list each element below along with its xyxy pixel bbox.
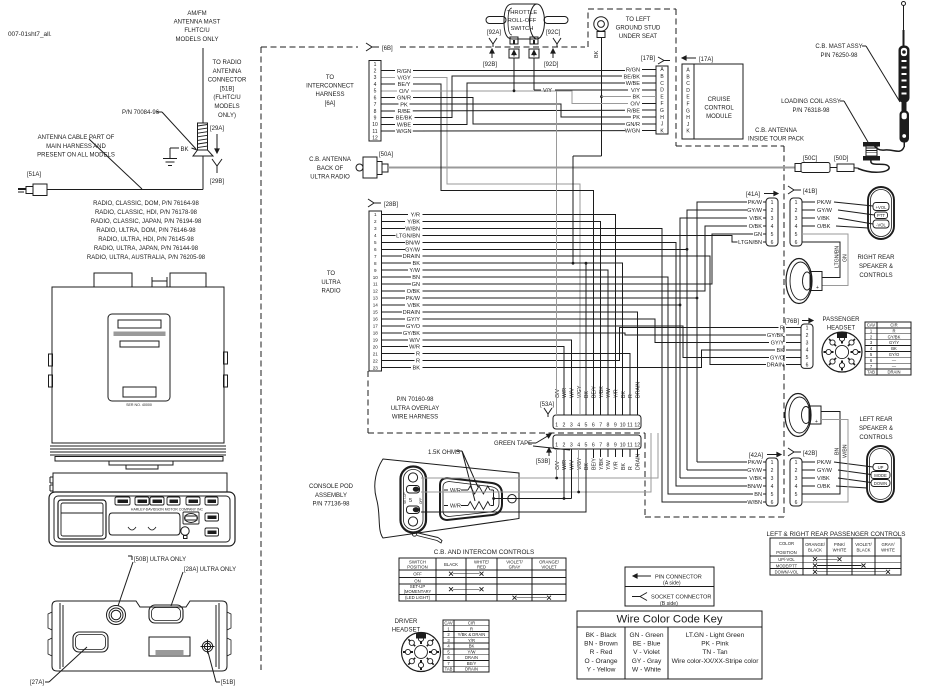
svg-text:11: 11 bbox=[627, 443, 632, 449]
CB and intercom controls table bbox=[399, 558, 566, 601]
svg-text:2: 2 bbox=[795, 468, 798, 474]
svg-text:CIR: CIR bbox=[890, 323, 897, 328]
svg-text:DRAIN: DRAIN bbox=[635, 454, 641, 470]
svg-text:W/R: W/R bbox=[450, 488, 461, 494]
wire stubs 53B pins 6-12 bbox=[592, 449, 594, 458]
svg-text:Y/BK: Y/BK bbox=[407, 219, 420, 225]
svg-text:4: 4 bbox=[374, 233, 377, 238]
svg-text:4: 4 bbox=[795, 484, 798, 490]
svg-text:[50D]: [50D] bbox=[834, 156, 849, 162]
svg-text:1: 1 bbox=[795, 200, 798, 206]
svg-text:R: R bbox=[892, 328, 895, 333]
svg-text:4: 4 bbox=[806, 348, 809, 354]
svg-text:1: 1 bbox=[555, 423, 558, 429]
svg-text:[42A]: [42A] bbox=[749, 453, 763, 459]
svg-text:GRAY/: GRAY/ bbox=[881, 542, 895, 547]
svg-text:ULTRA OVERLAY: ULTRA OVERLAY bbox=[391, 406, 439, 412]
svg-text:[42B]: [42B] bbox=[803, 451, 817, 457]
svg-text:GY/BK: GY/BK bbox=[767, 333, 784, 339]
console pod switch slots bbox=[407, 486, 420, 494]
svg-text:R/GN: R/GN bbox=[626, 68, 640, 74]
svg-text:1: 1 bbox=[806, 326, 809, 332]
svg-text:[53A]: [53A] bbox=[540, 402, 554, 408]
CB mast antenna bbox=[899, 2, 909, 148]
svg-text:RED: RED bbox=[477, 565, 486, 570]
wire GY/O 28B-17 to 76B-5 bbox=[423, 326, 769, 357]
svg-text:H: H bbox=[686, 115, 690, 121]
svg-text:8: 8 bbox=[607, 443, 610, 449]
wires 41B to right pod bbox=[834, 202, 873, 206]
svg-text:6: 6 bbox=[806, 363, 809, 369]
svg-text:8: 8 bbox=[607, 423, 610, 429]
svg-text:SOCKET CONNECTOR: SOCKET CONNECTOR bbox=[651, 595, 711, 601]
svg-text:ANTENNA: ANTENNA bbox=[213, 69, 242, 75]
resistor R2 1.5k bbox=[468, 502, 490, 510]
svg-text:DRAIN: DRAIN bbox=[635, 382, 641, 398]
label [92D] with arrow bbox=[552, 49, 554, 58]
svg-text:SWITCH: SWITCH bbox=[511, 26, 534, 32]
svg-text:W/R: W/R bbox=[409, 345, 420, 351]
wire GY/Y 28B-16 to 76B-3 bbox=[423, 319, 769, 343]
svg-text:MODELS ONLY: MODELS ONLY bbox=[176, 37, 219, 43]
svg-text:BK: BK bbox=[181, 147, 189, 153]
label [51B] with pointer bbox=[216, 681, 220, 683]
svg-text:GY/W: GY/W bbox=[405, 247, 421, 253]
wire O/V 6B-5 to 17B-F bbox=[411, 91, 628, 104]
svg-text:PK - Pink: PK - Pink bbox=[701, 641, 729, 648]
svg-text:BK: BK bbox=[413, 366, 421, 372]
svg-text:PK/W: PK/W bbox=[817, 200, 832, 206]
svg-text:GRAY: GRAY bbox=[509, 565, 521, 570]
svg-text:6: 6 bbox=[592, 443, 595, 449]
svg-text:4: 4 bbox=[795, 224, 798, 230]
svg-text:7: 7 bbox=[374, 254, 377, 259]
svg-text:[92A]: [92A] bbox=[487, 30, 501, 36]
antenna coil spring bbox=[198, 123, 208, 150]
passenger headset connector bbox=[822, 332, 862, 372]
svg-text:[76B]: [76B] bbox=[785, 319, 799, 325]
svg-text:CONTROLS: CONTROLS bbox=[859, 273, 892, 279]
wire R 28B-22 to 76B-1 bbox=[423, 328, 779, 361]
svg-text:5: 5 bbox=[771, 232, 774, 238]
svg-text:[50B] ULTRA ONLY: [50B] ULTRA ONLY bbox=[134, 557, 186, 563]
svg-text:GY/Y: GY/Y bbox=[771, 341, 785, 347]
svg-text:6: 6 bbox=[795, 500, 798, 506]
svg-text:ASSEMBLY: ASSEMBLY bbox=[315, 493, 347, 499]
svg-text:BN: BN bbox=[754, 492, 762, 498]
svg-text:8: 8 bbox=[374, 261, 377, 266]
svg-text:4: 4 bbox=[374, 82, 377, 88]
dashed boundary overlay harness bbox=[367, 371, 369, 433]
svg-text:[92C]: [92C] bbox=[546, 30, 561, 36]
svg-text:CAV: CAV bbox=[444, 620, 453, 625]
svg-text:TAB: TAB bbox=[418, 634, 424, 638]
svg-text:Y/BK: Y/BK bbox=[599, 386, 605, 398]
loading coil bbox=[858, 143, 904, 173]
label [50B] ultra only bbox=[128, 556, 132, 560]
svg-text:W/V: W/V bbox=[570, 460, 576, 470]
svg-text:12: 12 bbox=[373, 289, 379, 294]
svg-text:(B side): (B side) bbox=[660, 601, 678, 607]
svg-text:GN/R: GN/R bbox=[626, 122, 640, 128]
svg-text:GREEN TAPE: GREEN TAPE bbox=[494, 441, 532, 447]
svg-text:R/BE: R/BE bbox=[627, 108, 640, 114]
svg-text:5: 5 bbox=[795, 232, 798, 238]
svg-text:O/V: O/V bbox=[555, 461, 561, 470]
svg-text:9: 9 bbox=[614, 443, 617, 449]
svg-text:RADIO, ULTRA, HDI, P/N 76145-9: RADIO, ULTRA, HDI, P/N 76145-98 bbox=[98, 237, 194, 243]
svg-text:5: 5 bbox=[585, 423, 588, 429]
svg-text:7: 7 bbox=[599, 423, 602, 429]
svg-text:RIGHT REAR: RIGHT REAR bbox=[858, 255, 896, 261]
svg-text:[29A]: [29A] bbox=[210, 126, 224, 132]
svg-text:BK: BK bbox=[584, 463, 590, 470]
wire GY/BK 28B-18 to 76B-2 bbox=[423, 333, 766, 335]
wire W/R 28B-20 to 53A-2 bbox=[423, 347, 564, 415]
svg-text:GY/O: GY/O bbox=[770, 355, 785, 361]
wire W/BN 28B-3 to 42A-6 bbox=[423, 228, 747, 502]
svg-text:Y/R: Y/R bbox=[468, 638, 475, 643]
svg-text:D: D bbox=[686, 88, 690, 94]
svg-text:[92D]: [92D] bbox=[544, 62, 559, 68]
svg-text:[17A]: [17A] bbox=[699, 57, 713, 63]
svg-text:[92B]: [92B] bbox=[483, 62, 497, 68]
svg-text:Y/BK: Y/BK bbox=[599, 458, 605, 470]
svg-text:5: 5 bbox=[374, 89, 377, 95]
svg-text:BE/BK: BE/BK bbox=[624, 74, 641, 80]
svg-text:WHITE: WHITE bbox=[881, 548, 895, 553]
svg-text:22: 22 bbox=[373, 358, 379, 363]
pin symbol 92B terminal bbox=[509, 49, 519, 58]
svg-text:G: G bbox=[686, 108, 690, 114]
svg-text:WHITE: WHITE bbox=[833, 548, 847, 553]
svg-text:(LED LIGHT): (LED LIGHT) bbox=[405, 595, 431, 600]
svg-text:[29B]: [29B] bbox=[210, 179, 224, 185]
svg-text:TO: TO bbox=[326, 75, 335, 81]
svg-text:TN - Tan: TN - Tan bbox=[702, 649, 727, 656]
svg-text:Y/W: Y/W bbox=[409, 268, 420, 274]
svg-text:G: G bbox=[660, 108, 664, 114]
wire Y/R 28B-1 to 53A-9 bbox=[423, 214, 616, 415]
svg-text:BLACK: BLACK bbox=[808, 548, 822, 553]
svg-text:4: 4 bbox=[771, 484, 774, 490]
svg-text:DRAIN: DRAIN bbox=[465, 667, 478, 672]
svg-text:[51B]: [51B] bbox=[221, 680, 235, 686]
svg-text:O/V: O/V bbox=[630, 102, 640, 108]
wire PK 6B-7 to 17B-H bbox=[410, 104, 632, 117]
svg-text:P/N 70084-96: P/N 70084-96 bbox=[122, 110, 160, 116]
svg-text:P/N 77136-98: P/N 77136-98 bbox=[312, 502, 350, 508]
svg-text:3: 3 bbox=[806, 340, 809, 346]
ground symbol bbox=[163, 158, 177, 160]
wire V/GY 53B-4 to pod switch line bbox=[421, 433, 651, 492]
svg-text:WIRE HARNESS: WIRE HARNESS bbox=[392, 415, 438, 421]
svg-text:4: 4 bbox=[771, 224, 774, 230]
svg-text:PASSENGER: PASSENGER bbox=[823, 317, 861, 323]
svg-text:+VOL: +VOL bbox=[876, 205, 887, 210]
wire LTGN/BN 41B-6 to right speaker bbox=[802, 242, 840, 278]
wire W/BN 42B-6 to left speaker bbox=[802, 420, 848, 503]
console pod switch plate bbox=[401, 467, 427, 533]
svg-text:DRIVER: DRIVER bbox=[395, 619, 418, 625]
connector 53A bbox=[553, 415, 641, 429]
svg-text:BK: BK bbox=[621, 391, 627, 398]
svg-text:COLOR: COLOR bbox=[779, 541, 794, 546]
radio chassis top view bbox=[49, 273, 228, 469]
svg-text:W/BN: W/BN bbox=[843, 444, 849, 458]
throttle roll-off switch bbox=[486, 4, 568, 44]
svg-text:O/BK: O/BK bbox=[817, 484, 831, 490]
left rear speaker bbox=[785, 394, 811, 437]
svg-text:PK: PK bbox=[633, 115, 641, 121]
ground stud under seat bbox=[594, 17, 608, 31]
wire V/BK 28B-14 to 41A-3 and 42A-3 bbox=[423, 218, 747, 305]
svg-text:BE/Y: BE/Y bbox=[592, 458, 598, 470]
svg-text:BK - Black: BK - Black bbox=[586, 632, 617, 639]
svg-text:PK/W: PK/W bbox=[406, 296, 421, 302]
svg-text:CONTROL: CONTROL bbox=[704, 106, 734, 112]
antenna cable plug [51A] bbox=[33, 184, 47, 196]
svg-text:5: 5 bbox=[585, 443, 588, 449]
svg-text:P/N 70160-98: P/N 70160-98 bbox=[396, 397, 434, 403]
wire PK/W 28B-13 to 41A-1 and 42A-1 bbox=[423, 202, 747, 298]
svg-text:HARNESS: HARNESS bbox=[315, 92, 344, 98]
svg-text:GN - Green: GN - Green bbox=[629, 632, 663, 639]
wire coil to cable bend bbox=[202, 156, 204, 190]
svg-text:6: 6 bbox=[374, 247, 377, 252]
console pod outline bbox=[375, 459, 519, 538]
svg-text:BK: BK bbox=[413, 261, 421, 267]
svg-text:W/BN: W/BN bbox=[405, 226, 420, 232]
svg-text:V/BK: V/BK bbox=[749, 476, 762, 482]
svg-text:BK: BK bbox=[621, 463, 627, 470]
svg-text:V/BK: V/BK bbox=[817, 476, 830, 482]
svg-text:2: 2 bbox=[806, 333, 809, 339]
wire BK 28B-8 to 53A-5 and 53A-10 bbox=[423, 263, 623, 415]
svg-text:GY/W: GY/W bbox=[747, 468, 763, 474]
svg-text:GY/W: GY/W bbox=[747, 208, 763, 214]
svg-text:C: C bbox=[660, 81, 664, 87]
wire BN 42B-5 to left speaker bbox=[802, 412, 840, 495]
svg-text:BK: BK bbox=[633, 95, 641, 101]
connector 41B bbox=[790, 198, 802, 246]
svg-text:BE/Y: BE/Y bbox=[467, 661, 477, 666]
svg-text:6: 6 bbox=[795, 240, 798, 246]
wire LTGN/BN 28B-4 to 41A-6 bbox=[423, 235, 738, 242]
svg-text:TO LEFT: TO LEFT bbox=[626, 17, 651, 23]
svg-text:BLACK: BLACK bbox=[444, 562, 458, 567]
svg-text:5: 5 bbox=[795, 492, 798, 498]
svg-text:PIN 76250-98: PIN 76250-98 bbox=[820, 53, 858, 59]
svg-text:V/GY: V/GY bbox=[577, 457, 583, 470]
wire R/BE 6B-8 to 17B-G bbox=[413, 109, 625, 112]
svg-text:9: 9 bbox=[374, 116, 377, 122]
svg-text:AM/FM: AM/FM bbox=[187, 11, 206, 17]
svg-text:LTGN/BN: LTGN/BN bbox=[738, 240, 762, 246]
svg-text:V/BK: V/BK bbox=[407, 303, 420, 309]
svg-text:CONTROLS: CONTROLS bbox=[859, 435, 892, 441]
svg-text:VIOLET: VIOLET bbox=[541, 565, 557, 570]
svg-text:W/BE: W/BE bbox=[397, 122, 412, 128]
svg-text:GN: GN bbox=[412, 282, 420, 288]
svg-text:RADIO, CLASSIC, JAPAN, P/N 761: RADIO, CLASSIC, JAPAN, P/N 76194-98 bbox=[91, 219, 202, 225]
svg-text:[6A]: [6A] bbox=[325, 101, 336, 107]
svg-text:3: 3 bbox=[374, 226, 377, 231]
svg-text:BN - Brown: BN - Brown bbox=[584, 641, 618, 648]
svg-text:[53B]: [53B] bbox=[536, 459, 550, 465]
socket symbol and label [6B] bbox=[366, 43, 379, 51]
svg-text:23: 23 bbox=[373, 365, 379, 370]
svg-text:9: 9 bbox=[614, 423, 617, 429]
svg-text:BK: BK bbox=[584, 391, 590, 398]
svg-text:16: 16 bbox=[373, 317, 379, 322]
svg-text:5: 5 bbox=[771, 492, 774, 498]
svg-text:UNDER SEAT: UNDER SEAT bbox=[619, 34, 658, 40]
svg-text:1: 1 bbox=[555, 443, 558, 449]
passenger headset pin table bbox=[865, 322, 911, 375]
svg-text:BE/Y: BE/Y bbox=[398, 82, 411, 88]
svg-text:BE - Blue: BE - Blue bbox=[633, 641, 661, 648]
svg-text:C.B. ANTENNA: C.B. ANTENNA bbox=[755, 128, 797, 134]
svg-text:[6B]: [6B] bbox=[382, 46, 393, 52]
svg-text:6: 6 bbox=[592, 423, 595, 429]
svg-text:[27A]: [27A] bbox=[30, 680, 44, 686]
svg-text:GY/O: GY/O bbox=[889, 352, 900, 357]
svg-text:BK: BK bbox=[594, 50, 600, 58]
svg-text:W/R: W/R bbox=[450, 504, 461, 510]
svg-text:GN: GN bbox=[754, 232, 762, 238]
svg-text:TO: TO bbox=[327, 271, 336, 277]
svg-text:UP/-VOL: UP/-VOL bbox=[778, 557, 795, 562]
svg-text:BK: BK bbox=[777, 348, 785, 354]
svg-text:C.B. AND INTERCOM CONTROLS: C.B. AND INTERCOM CONTROLS bbox=[434, 549, 534, 556]
svg-text:BE/Y: BE/Y bbox=[592, 386, 598, 398]
svg-text:Y/W: Y/W bbox=[606, 388, 612, 398]
svg-text:12: 12 bbox=[372, 136, 378, 142]
socket symbol [29B] bbox=[212, 159, 222, 173]
svg-text:1: 1 bbox=[374, 62, 377, 68]
svg-text:W/GN: W/GN bbox=[625, 129, 640, 135]
svg-text:5: 5 bbox=[806, 355, 809, 361]
svg-text:RADIO, ULTRA, DOM, P/N 76146-9: RADIO, ULTRA, DOM, P/N 76146-98 bbox=[96, 228, 196, 234]
svg-text:11: 11 bbox=[372, 129, 377, 135]
svg-text:3: 3 bbox=[771, 216, 774, 222]
wire R 28B-21 to 53A-11 bbox=[423, 354, 630, 415]
wire BN 28B-10 to 42A-5 bbox=[423, 277, 754, 494]
svg-text:DOWN: DOWN bbox=[874, 481, 887, 486]
svg-text:2: 2 bbox=[374, 68, 377, 74]
svg-text:O/V: O/V bbox=[555, 389, 561, 398]
resistor R1 1.5k bbox=[468, 486, 490, 494]
svg-text:R - Red: R - Red bbox=[590, 649, 613, 656]
svg-text:GY/Y: GY/Y bbox=[407, 317, 421, 323]
svg-text:GY/W: GY/W bbox=[817, 208, 833, 214]
svg-text:V/BK: V/BK bbox=[817, 216, 830, 222]
svg-text:BN: BN bbox=[412, 275, 420, 281]
svg-text:18: 18 bbox=[373, 330, 379, 335]
socket symbol label [41B] bbox=[788, 186, 801, 194]
svg-text:V/BK: V/BK bbox=[749, 216, 762, 222]
svg-text:2: 2 bbox=[771, 468, 774, 474]
svg-text:2: 2 bbox=[563, 443, 566, 449]
svg-text:11: 11 bbox=[627, 423, 632, 429]
wire BK 28B-23 to 76B-4 bbox=[423, 350, 776, 368]
svg-text:VIOLET/: VIOLET/ bbox=[855, 542, 872, 547]
svg-text:ULTRA RADIO: ULTRA RADIO bbox=[310, 175, 350, 181]
svg-text:SET-UP: SET-UP bbox=[403, 492, 407, 504]
svg-text:Y - Yellow: Y - Yellow bbox=[587, 666, 616, 673]
svg-text:PK/W: PK/W bbox=[817, 460, 832, 466]
driver headset connector bbox=[402, 633, 441, 672]
svg-text:3: 3 bbox=[795, 216, 798, 222]
svg-text:[41B]: [41B] bbox=[803, 189, 817, 195]
svg-text:V/GY: V/GY bbox=[397, 76, 411, 82]
svg-text:LT.GN - Light Green: LT.GN - Light Green bbox=[686, 632, 745, 639]
label [92B] with arrow bbox=[491, 49, 493, 58]
svg-text:TO RADIO: TO RADIO bbox=[213, 60, 242, 66]
svg-text:LTGN/BN: LTGN/BN bbox=[835, 246, 841, 268]
svg-text:[28A] ULTRA ONLY: [28A] ULTRA ONLY bbox=[184, 567, 236, 573]
wire V/GY 6B-3 loop to 53A-4 bbox=[413, 77, 580, 415]
svg-text:Y/W: Y/W bbox=[606, 460, 612, 470]
svg-text:2: 2 bbox=[795, 208, 798, 214]
coax connector 50D bbox=[830, 167, 837, 169]
svg-text:-VOL: -VOL bbox=[876, 222, 886, 227]
svg-text:RADIO, ULTRA, JAPAN, P/N 76144: RADIO, ULTRA, JAPAN, P/N 76144-98 bbox=[94, 246, 199, 252]
svg-text:W/R: W/R bbox=[562, 460, 568, 470]
socket symbol and label [28B] bbox=[368, 199, 381, 207]
svg-text:+: + bbox=[815, 419, 818, 425]
svg-text:THROTTLE: THROTTLE bbox=[507, 10, 538, 16]
svg-text:14: 14 bbox=[373, 303, 379, 308]
svg-text:12: 12 bbox=[634, 443, 640, 449]
svg-text:[28B]: [28B] bbox=[384, 202, 398, 208]
wire W/GN 6B-11 to 17B-K bbox=[413, 130, 625, 132]
svg-text:20: 20 bbox=[373, 344, 379, 349]
svg-text:OFF: OFF bbox=[419, 498, 423, 504]
svg-text:1.5K OHMS: 1.5K OHMS bbox=[428, 450, 460, 456]
wire W/V 28B-19 to 53A-3 bbox=[423, 340, 572, 415]
wires 42B to left pod bbox=[834, 462, 873, 467]
svg-text:CAV: CAV bbox=[867, 323, 876, 328]
svg-text:5: 5 bbox=[409, 498, 412, 504]
svg-text:O - Orange: O - Orange bbox=[585, 658, 618, 665]
svg-text:2: 2 bbox=[771, 208, 774, 214]
svg-text:DRAIN: DRAIN bbox=[465, 655, 478, 660]
wire BK 53B-5 to pod bbox=[421, 449, 586, 512]
svg-text:ANTENNA MAST: ANTENNA MAST bbox=[174, 20, 221, 26]
svg-text:GY/BK: GY/BK bbox=[403, 331, 420, 337]
svg-text:GY/W: GY/W bbox=[817, 468, 833, 474]
pin symbol 92D terminal bbox=[529, 49, 539, 58]
svg-text:3: 3 bbox=[374, 75, 377, 81]
svg-text:R/GN: R/GN bbox=[397, 69, 411, 75]
svg-text:SER NO. 40000: SER NO. 40000 bbox=[126, 403, 152, 407]
connector 6B bbox=[369, 61, 381, 142]
coax connector 50C bbox=[795, 164, 801, 172]
svg-text:INSIDE TOUR PACK: INSIDE TOUR PACK bbox=[748, 136, 804, 142]
svg-text:SPEAKER &: SPEAKER & bbox=[859, 426, 893, 432]
svg-text:PRESENT ON ALL MODELS: PRESENT ON ALL MODELS bbox=[37, 153, 115, 159]
svg-text:TAB: TAB bbox=[445, 667, 453, 672]
wire O/V feeder to 53A-1 bbox=[556, 91, 558, 415]
svg-text:R: R bbox=[416, 352, 420, 358]
svg-text:C.B. ANTENNA: C.B. ANTENNA bbox=[309, 157, 351, 163]
svg-text:OFF: OFF bbox=[413, 572, 422, 577]
wire DRAIN 28B-7 to 76B-6 bbox=[423, 256, 766, 364]
wire throttle switch terminal 92B drop bbox=[513, 58, 515, 91]
svg-text:DRAIN: DRAIN bbox=[403, 254, 420, 260]
